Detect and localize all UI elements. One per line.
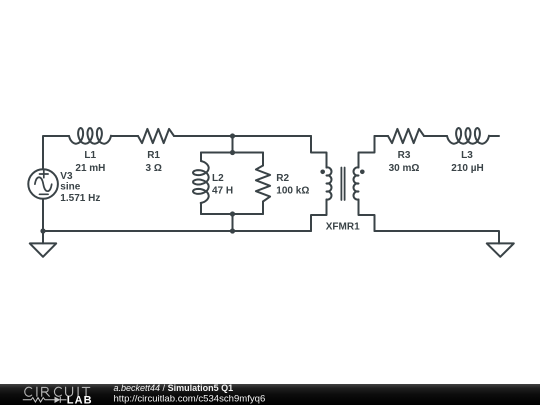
inductor L1 xyxy=(69,128,111,144)
svg-text:210 µH: 210 µH xyxy=(451,163,483,174)
voltage source V3 xyxy=(28,169,58,199)
wire xyxy=(42,199,44,231)
svg-text:sine: sine xyxy=(60,182,80,193)
svg-text:XFMR1: XFMR1 xyxy=(326,222,360,233)
node junction dots xyxy=(40,228,45,233)
svg-text:V3: V3 xyxy=(60,171,73,182)
inductor L3 xyxy=(447,128,489,144)
wire node drop top xyxy=(232,136,234,153)
logo glyph wire resistor diode xyxy=(23,397,67,403)
wire node drop bottom xyxy=(232,214,234,231)
wire bottom rail xyxy=(43,230,311,232)
transformer phase dots xyxy=(320,170,325,175)
svg-text:R3: R3 xyxy=(398,150,411,161)
svg-text:30 mΩ: 30 mΩ xyxy=(389,163,420,174)
wire xyxy=(174,135,311,137)
svg-text:L3: L3 xyxy=(461,150,473,161)
svg-text:1.571 Hz: 1.571 Hz xyxy=(60,193,100,204)
svg-text:LAB: LAB xyxy=(67,394,93,405)
wire xyxy=(424,135,447,137)
wire parallel bottom rail xyxy=(201,213,263,215)
wire xyxy=(489,135,499,137)
wire xyxy=(43,136,69,169)
wire secondary top xyxy=(375,135,389,137)
svg-text:a.beckett44 / Simulation5 Q1: a.beckett44 / Simulation5 Q1 xyxy=(114,383,234,393)
ground right xyxy=(487,243,514,256)
svg-text:47 H: 47 H xyxy=(212,186,233,197)
svg-text:3 Ω: 3 Ω xyxy=(146,163,162,174)
svg-text:http://circuitlab.com/c534sch9: http://circuitlab.com/c534sch9mfyq6 xyxy=(114,393,266,404)
wire parallel top rail xyxy=(201,152,263,154)
wire secondary bottom rail xyxy=(375,231,500,244)
wire xyxy=(111,135,138,137)
inductor L2 xyxy=(200,153,202,162)
resistor R3 xyxy=(388,129,424,143)
svg-text:L2: L2 xyxy=(212,173,224,184)
resistor R2 xyxy=(262,153,264,166)
svg-text:100 kΩ: 100 kΩ xyxy=(276,186,309,197)
ground left xyxy=(42,231,44,243)
svg-text:21 mH: 21 mH xyxy=(75,163,105,174)
svg-text:R2: R2 xyxy=(276,173,289,184)
svg-text:L1: L1 xyxy=(84,150,96,161)
resistor R1 xyxy=(138,129,174,143)
logo CIRCUIT text xyxy=(25,387,90,396)
svg-text:R1: R1 xyxy=(147,150,160,161)
transformer XFMR1 xyxy=(311,136,327,168)
